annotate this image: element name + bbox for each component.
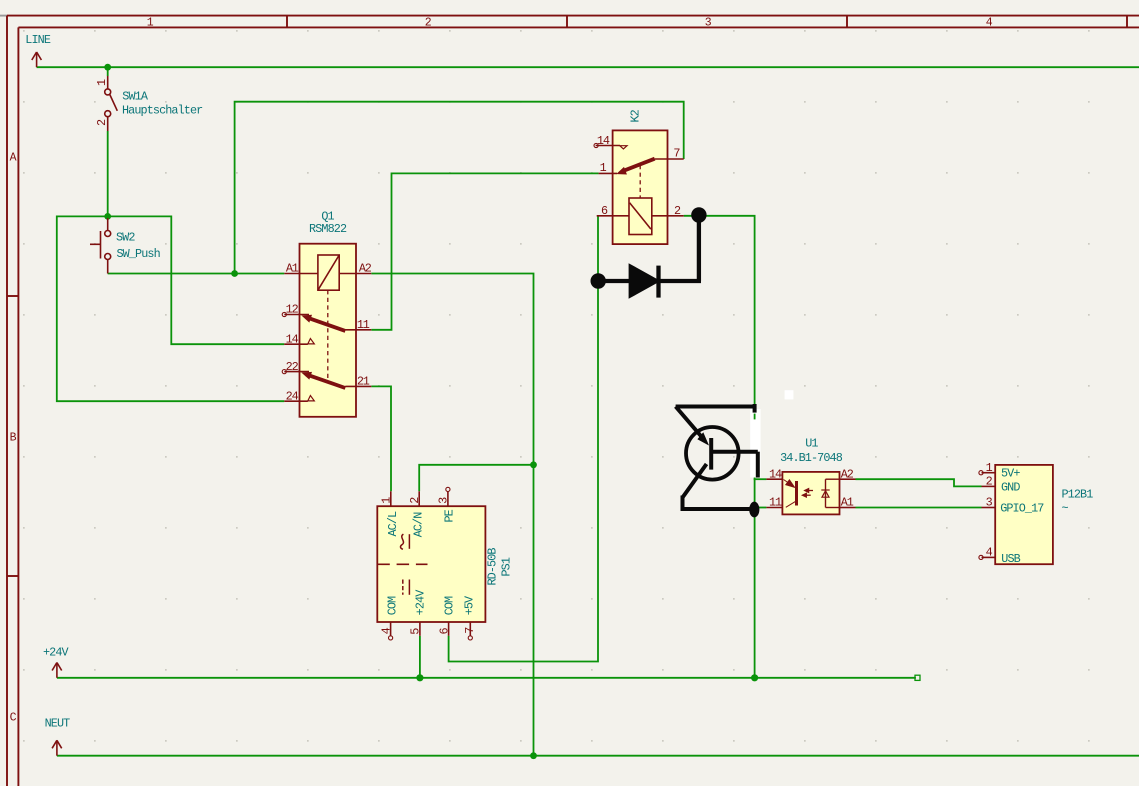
svg-text:+24V: +24V bbox=[414, 589, 428, 616]
pin 14 U1 bbox=[766, 478, 782, 480]
junction K2 pin2 branch / +24V rail bbox=[751, 674, 758, 681]
pin 4 PS1 COM bbox=[389, 622, 393, 640]
pin 6 PS1 COM bbox=[448, 622, 450, 636]
junction LINE / SW1A bbox=[104, 64, 111, 71]
svg-text:4: 4 bbox=[986, 546, 993, 560]
switch blade pole1 Q1 bbox=[303, 315, 346, 331]
svg-text:C: C bbox=[10, 712, 17, 725]
svg-text:2: 2 bbox=[425, 17, 432, 30]
svg-text:21: 21 bbox=[357, 375, 370, 389]
pin A1 U1 bbox=[840, 507, 856, 509]
svg-text:2: 2 bbox=[95, 119, 109, 126]
svg-text:GND: GND bbox=[1001, 480, 1020, 494]
junction A2 branch / NEUT rail bbox=[530, 752, 537, 759]
svg-text:A1: A1 bbox=[841, 496, 854, 510]
optocoupler U1 34.B1-7048 bbox=[766, 437, 855, 515]
freewheel diode (black graphic) bbox=[592, 209, 705, 298]
svg-text:3: 3 bbox=[986, 496, 993, 510]
switch SW2 SW_Push bbox=[90, 218, 161, 274]
global label LINE bbox=[25, 33, 51, 67]
svg-text:+24V: +24V bbox=[43, 645, 70, 659]
svg-text:A2: A2 bbox=[359, 261, 372, 275]
pin 21 Q1 bbox=[345, 385, 371, 387]
svg-text:1: 1 bbox=[379, 497, 393, 504]
svg-text:A: A bbox=[10, 152, 17, 165]
svg-text:14: 14 bbox=[286, 332, 299, 346]
svg-text:1: 1 bbox=[95, 79, 109, 86]
AC symbol PS1 bbox=[400, 534, 409, 549]
pin 22 Q1 (NC) bbox=[282, 370, 309, 374]
svg-text:4: 4 bbox=[986, 17, 993, 30]
pin 5 PS1 +24V bbox=[419, 622, 421, 636]
svg-text:14: 14 bbox=[597, 134, 610, 148]
svg-text:SW_Push: SW_Push bbox=[117, 247, 161, 261]
svg-text:5V+: 5V+ bbox=[1001, 467, 1020, 481]
wire U1 pin14 stub bbox=[754, 478, 767, 480]
svg-text:2: 2 bbox=[986, 475, 993, 489]
switch blade K2 bbox=[618, 159, 655, 174]
svg-text:2: 2 bbox=[674, 204, 681, 218]
svg-text:Hauptschalter: Hauptschalter bbox=[122, 103, 203, 117]
svg-text:RSM822: RSM822 bbox=[309, 222, 347, 236]
svg-text:A1: A1 bbox=[286, 261, 299, 275]
pin 12 Q1 (NC) bbox=[282, 312, 309, 316]
pin 3 PS1 PE bbox=[446, 487, 450, 506]
power supply PS1 RD-50B bbox=[377, 487, 513, 640]
wire K2 pin1 to Q1 pin11 bbox=[371, 173, 598, 329]
svg-text:COM: COM bbox=[442, 596, 456, 615]
wire U1 pin11 stub bbox=[754, 507, 766, 509]
wire U1 pinA1 to P12B1 pin3 GPIO_17 bbox=[856, 507, 982, 509]
DC symbol PS1 bbox=[403, 580, 410, 595]
svg-text:7: 7 bbox=[673, 147, 680, 161]
divider dashed PS1 bbox=[377, 563, 427, 565]
wire node SW2 left branch to Q1 pin24 bbox=[57, 216, 284, 401]
wire branch junction to PS1 pin2 bbox=[419, 465, 533, 492]
wire K2 pin6 down to PS1 pin6 bbox=[449, 216, 598, 662]
svg-text:1: 1 bbox=[147, 17, 154, 30]
pin 11 Q1 bbox=[345, 329, 371, 331]
transistor sketch (black graphic) bbox=[676, 404, 759, 517]
svg-text:5: 5 bbox=[408, 628, 422, 635]
wire end square +24V rail bbox=[915, 675, 920, 680]
pin 1 P12B1 5V+ bbox=[979, 471, 995, 475]
svg-text:B: B bbox=[10, 432, 17, 445]
white patches over wire bbox=[750, 409, 760, 478]
junction SW1A / SW2 node bbox=[104, 213, 111, 220]
relay Q1 RSM822 bbox=[282, 210, 372, 417]
svg-text:22: 22 bbox=[286, 360, 299, 374]
wire +24V rail horizontal bbox=[57, 677, 916, 679]
pin 11 U1 bbox=[766, 507, 782, 509]
svg-text:AC/L: AC/L bbox=[386, 511, 400, 537]
wire PS1 pin5 to +24V rail bbox=[419, 636, 421, 678]
dashed actuator K2 bbox=[639, 165, 641, 198]
pin 3 P12B1 GPIO_17 bbox=[982, 507, 996, 509]
svg-text:4: 4 bbox=[379, 627, 393, 634]
svg-text:6: 6 bbox=[438, 628, 452, 635]
pin 14 K2 (NO) bbox=[594, 143, 627, 149]
svg-text:USB: USB bbox=[1001, 552, 1020, 566]
pin 2 P12B1 GND bbox=[982, 485, 996, 487]
wire SW1A pin2 down to SW2 node bbox=[107, 131, 109, 216]
wire SW2 bottom to Q1 pinA1 bbox=[108, 273, 285, 275]
pin A2 U1 bbox=[840, 478, 856, 480]
wire Q1 pinA2 to PS1 pin2 and NEUT bbox=[371, 274, 533, 756]
svg-text:SW1A: SW1A bbox=[122, 89, 149, 103]
wire LINE bus horizontal bbox=[37, 66, 1139, 68]
pin 7 PS1 +5V bbox=[468, 622, 472, 640]
svg-text:A2: A2 bbox=[841, 467, 854, 481]
global label +24V bbox=[43, 645, 70, 677]
pin 1 K2 bbox=[599, 172, 617, 174]
svg-text:SW2: SW2 bbox=[116, 231, 135, 245]
wire NEUT rail horizontal bbox=[57, 755, 1139, 757]
switch SW1A Hauptschalter bbox=[95, 76, 203, 131]
wire Q1 pin21 to PS1 pin1 bbox=[371, 386, 391, 491]
pin 1 PS1 AC/L bbox=[390, 491, 392, 506]
svg-text:P12B1: P12B1 bbox=[1062, 488, 1094, 502]
svg-text:COM: COM bbox=[386, 596, 400, 615]
connector P12B1 bbox=[979, 461, 1093, 566]
svg-text:PE: PE bbox=[442, 509, 456, 522]
pin 7 K2 bbox=[655, 158, 684, 160]
svg-text:K2: K2 bbox=[629, 109, 643, 122]
svg-text:11: 11 bbox=[357, 318, 370, 332]
svg-text:34.B1-7048: 34.B1-7048 bbox=[780, 451, 843, 465]
svg-text:1: 1 bbox=[986, 461, 993, 475]
wire vertical from A1 junction up to K2 pin7 bbox=[235, 102, 684, 274]
svg-text:RD-50B: RD-50B bbox=[485, 548, 499, 586]
svg-text:LINE: LINE bbox=[25, 33, 51, 47]
svg-text:24: 24 bbox=[286, 389, 299, 403]
svg-text:3: 3 bbox=[437, 497, 451, 504]
junction A1 wire / K2 branch bbox=[231, 270, 238, 277]
junction NEUT branch / PS1 pin2 bbox=[530, 461, 537, 468]
wire node SW2 right branch to Q1 pin14 bbox=[108, 216, 285, 344]
svg-text:NEUT: NEUT bbox=[45, 716, 71, 730]
svg-text:AC/N: AC/N bbox=[411, 512, 425, 538]
light arrows U1 bbox=[803, 489, 814, 497]
svg-text:+5V: +5V bbox=[463, 595, 477, 615]
pin 4 P12B1 USB bbox=[979, 555, 995, 559]
LED side U1 bbox=[821, 479, 839, 507]
relay K2 bbox=[594, 109, 684, 244]
pin 2 PS1 AC/N bbox=[418, 491, 420, 506]
wire K2 pin2 to +24V rail bbox=[684, 216, 755, 678]
global label NEUT bbox=[45, 716, 71, 755]
svg-text:6: 6 bbox=[601, 204, 608, 218]
coil Q1 bbox=[284, 255, 371, 379]
svg-text:3: 3 bbox=[705, 17, 712, 30]
switch blade pole2 Q1 bbox=[303, 372, 346, 388]
svg-text:14: 14 bbox=[769, 467, 782, 481]
svg-text:11: 11 bbox=[769, 496, 782, 510]
junction PS1 pin5 / +24V rail bbox=[416, 674, 423, 681]
pin 24 Q1 (NO) bbox=[284, 400, 308, 402]
svg-text:7: 7 bbox=[463, 627, 477, 634]
svg-text:U1: U1 bbox=[805, 437, 818, 451]
pin 14 Q1 (NO) bbox=[284, 343, 308, 345]
wire U1 pinA2 to P12B1 pin2 bbox=[856, 479, 982, 486]
svg-text:1: 1 bbox=[600, 161, 607, 175]
svg-text:~: ~ bbox=[1062, 502, 1069, 516]
phototransistor U1 bbox=[784, 480, 797, 508]
svg-text:12: 12 bbox=[286, 303, 299, 317]
svg-text:GPIO_17: GPIO_17 bbox=[1000, 501, 1044, 515]
svg-text:PS1: PS1 bbox=[500, 557, 514, 576]
coil K2 bbox=[597, 198, 684, 235]
svg-text:2: 2 bbox=[408, 497, 422, 504]
wire green dash remnant bbox=[754, 414, 756, 420]
wire LINE junction to SW1A pin1 bbox=[107, 67, 109, 76]
